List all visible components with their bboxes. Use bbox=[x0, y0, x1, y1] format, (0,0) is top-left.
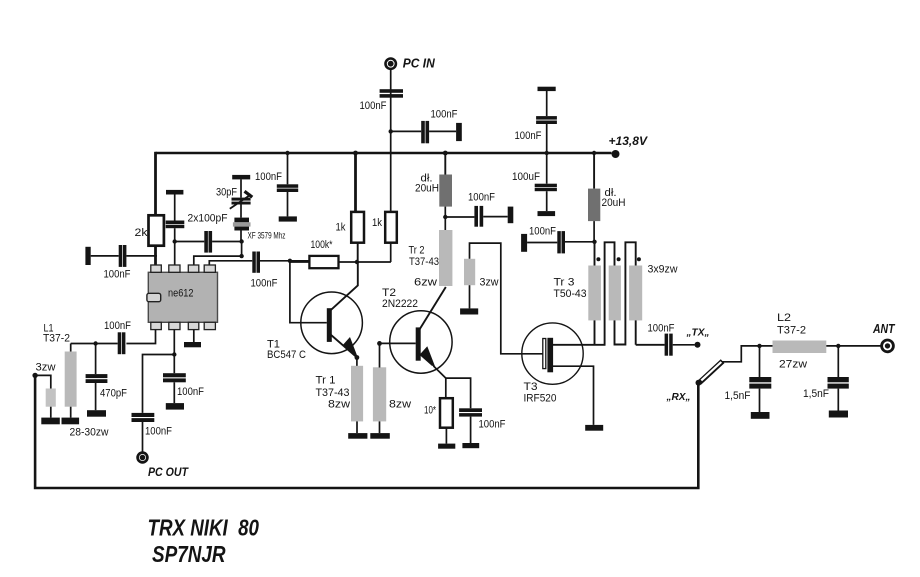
svg-text:L2: L2 bbox=[777, 312, 791, 324]
capacitor 100nF left of Tr3 bbox=[557, 231, 561, 253]
svg-text:T50-43: T50-43 bbox=[554, 288, 587, 300]
capacitor 100nF on pin4 wire bbox=[252, 252, 256, 273]
terminal PC OUT bbox=[138, 453, 148, 463]
node junction pin2 bottom bbox=[172, 352, 176, 356]
wire Tr3 winding1 vertical bbox=[594, 242, 596, 345]
ground end bar bbox=[456, 123, 462, 141]
capacitor 1,5nF #2 bbox=[828, 377, 849, 382]
transistor T1 base bar bbox=[327, 308, 332, 342]
node junction crystal bottom bbox=[239, 239, 243, 243]
wire cap to ground bbox=[470, 417, 472, 443]
wire trimmer to crystal bbox=[240, 205, 242, 218]
wire lever to L2 node bbox=[722, 346, 773, 362]
node junction pin2 bbox=[173, 239, 177, 243]
svg-text:1,5nF: 1,5nF bbox=[803, 388, 829, 400]
wire cap to ground bbox=[759, 389, 761, 412]
wire emitter to winding bbox=[356, 358, 358, 367]
transformer Tr3 winding 2 bbox=[609, 266, 621, 321]
wire choke2 to junction bbox=[593, 221, 595, 242]
wire cap to ground bbox=[837, 389, 839, 411]
wire junction right to 100nF bbox=[445, 216, 474, 218]
wire pin1 bottom to L1 node bbox=[126, 330, 155, 344]
wire 100nF to 100k* bbox=[260, 260, 309, 262]
svg-text:100nF: 100nF bbox=[515, 130, 542, 142]
node junction bus at x546 bbox=[545, 151, 549, 155]
wire cap to ground bbox=[173, 382, 175, 403]
svg-text:T3: T3 bbox=[524, 381, 538, 393]
svg-text:Tr 1: Tr 1 bbox=[316, 375, 336, 387]
svg-text:100k*: 100k* bbox=[311, 239, 334, 251]
node junction T1 collector bbox=[355, 260, 359, 264]
inductor choke dl.20uH #2 bbox=[588, 189, 600, 222]
wire pin2 bottom down bbox=[173, 330, 175, 374]
terminal PC IN bbox=[386, 59, 396, 69]
wire T3 source bbox=[553, 366, 594, 425]
wire bar to cap bbox=[546, 91, 548, 116]
capacitor 470pF bbox=[86, 374, 108, 378]
wire winding2 to ground bbox=[379, 421, 381, 433]
svg-text:100nF: 100nF bbox=[255, 171, 282, 183]
svg-text:T37-43: T37-43 bbox=[409, 256, 439, 268]
wire terminal to 3zw winding bbox=[35, 375, 51, 388]
svg-text:100nF: 100nF bbox=[431, 109, 458, 121]
wire 3zw to ground bbox=[50, 407, 52, 418]
trimmer arrow bbox=[230, 194, 251, 208]
node junction below choke1 bbox=[443, 215, 447, 219]
svg-text:100uF: 100uF bbox=[512, 171, 540, 183]
wire T3 drain to Tr3 bbox=[553, 344, 606, 346]
capacitor 100nF bypass at x287 bbox=[277, 184, 298, 188]
resistor 1k#2 bbox=[385, 212, 397, 243]
capacitor 1,5nF #1 bbox=[749, 377, 771, 382]
ground end bar above 30pF bbox=[232, 175, 250, 180]
svg-text:Tr 2: Tr 2 bbox=[409, 245, 425, 257]
svg-text:100nF: 100nF bbox=[177, 386, 204, 398]
ground end bar bbox=[521, 234, 527, 252]
transformer Tr1 winding 8zw left bbox=[351, 366, 363, 422]
wire 2k to ne612 pin1 bbox=[154, 246, 157, 266]
wire bar to cap bbox=[174, 195, 176, 221]
node junction drain supply bbox=[592, 240, 596, 244]
wire bar to trimmer bbox=[240, 179, 242, 197]
transformer Tr3 winding 1 bbox=[588, 266, 601, 321]
wire cap to pin1 wire bbox=[126, 255, 157, 257]
capacitor 100nF above bus bbox=[536, 116, 557, 120]
svg-text:ne612: ne612 bbox=[168, 287, 194, 299]
svg-text:28-30zw: 28-30zw bbox=[70, 427, 109, 439]
wire emitter node to 100nF bbox=[446, 378, 471, 408]
svg-text:100nF: 100nF bbox=[479, 419, 506, 431]
capacitor 100nF emitter bypass bbox=[459, 408, 482, 412]
resistor 10* bbox=[440, 398, 453, 428]
wire bar to cap bbox=[91, 255, 119, 257]
wire bus down to 1k#1 bbox=[354, 153, 357, 212]
terminal antenna-in node bbox=[32, 373, 37, 378]
ground bar bbox=[538, 211, 556, 216]
capacitor 100nF right of PC IN bbox=[421, 121, 425, 143]
transformer Tr2 winding 3zw bbox=[464, 259, 475, 285]
resistor 100k* bbox=[309, 256, 338, 268]
capacitor 100nF left of ne612 bbox=[119, 245, 123, 267]
node junction bus at x594 bbox=[592, 151, 596, 155]
svg-text:1k: 1k bbox=[336, 222, 346, 234]
capacitor 100nF below PC IN bbox=[380, 89, 403, 93]
node junction T2 base bbox=[377, 341, 382, 346]
transistor T2 collector bbox=[420, 287, 446, 330]
wire 3zw top to T3 gate bbox=[470, 243, 544, 354]
transistor T3 circle bbox=[522, 323, 583, 384]
svg-text:BC547 C: BC547 C bbox=[267, 349, 306, 361]
transistor T1 circle bbox=[301, 292, 363, 354]
svg-text:Tr 3: Tr 3 bbox=[554, 277, 575, 289]
transformer Tr3 winding 3 bbox=[629, 266, 642, 321]
crystal XF 3579 Mhz bbox=[234, 218, 249, 223]
ground bar under pin3 bbox=[184, 342, 201, 347]
svg-text:T37-43: T37-43 bbox=[316, 387, 350, 399]
capacitor 100nF under pin2 bbox=[163, 373, 186, 377]
wire junction right through cap bbox=[175, 241, 205, 243]
ground bar bbox=[166, 403, 184, 410]
capacitor 2x100pF (a) bbox=[166, 221, 185, 225]
svg-text:100nF: 100nF bbox=[468, 192, 495, 204]
wire 1k#1 to node bbox=[357, 243, 359, 262]
svg-text:PC OUT: PC OUT bbox=[148, 465, 189, 479]
svg-text:+13,8V: +13,8V bbox=[609, 134, 648, 148]
wire cap to pin2 junction bbox=[174, 228, 176, 266]
svg-text:IRF520: IRF520 bbox=[524, 393, 557, 405]
inductor 3zw input winding bbox=[46, 389, 56, 407]
svg-text:SP7NJR: SP7NJR bbox=[152, 541, 226, 567]
wire winding2 top to T2 base bbox=[380, 343, 416, 367]
svg-text:XF 3579 Mhz: XF 3579 Mhz bbox=[248, 231, 286, 242]
wire Tr3 series loop bbox=[605, 242, 636, 344]
IC notch marker bbox=[147, 293, 161, 301]
wire cap to TX terminal bbox=[673, 344, 695, 346]
svg-text:TRX NIKI 80: TRX NIKI 80 bbox=[148, 515, 260, 541]
svg-text:30pF: 30pF bbox=[216, 187, 237, 199]
svg-text:470pF: 470pF bbox=[100, 388, 127, 400]
ground bar bbox=[460, 308, 478, 314]
winding polarity dots bbox=[596, 257, 600, 261]
resistor 2k bbox=[149, 215, 164, 245]
svg-text:8zw: 8zw bbox=[389, 399, 411, 411]
svg-text:20uH: 20uH bbox=[602, 197, 626, 209]
capacitor 100nF PC OUT bbox=[132, 413, 155, 417]
ground bar bbox=[438, 444, 455, 449]
wire 10* to ground bbox=[445, 428, 447, 444]
ground end bar bbox=[508, 207, 514, 224]
wire crystal to node bbox=[240, 231, 242, 242]
svg-text:100nF: 100nF bbox=[251, 278, 278, 290]
capacitor 100nF pin1 to L1 bbox=[118, 332, 122, 354]
transformer Tr2 winding 6zw bbox=[439, 230, 452, 286]
svg-text:3zw: 3zw bbox=[36, 362, 56, 374]
transistor T1 collector bbox=[331, 262, 358, 310]
wire to 100nF right of PC IN bbox=[391, 130, 422, 132]
node junction bus at choke1 bbox=[443, 151, 448, 156]
node junction on PC IN line bbox=[389, 129, 393, 133]
ground bar under L1 bbox=[62, 418, 80, 425]
svg-text:100nF: 100nF bbox=[104, 320, 131, 332]
wire cap to bus bbox=[546, 124, 548, 153]
IC pins bottom bbox=[151, 322, 162, 329]
wire junction down to 470pF bbox=[95, 344, 97, 375]
node junction 1,5nF #2 bbox=[836, 344, 840, 348]
transistor T2 base bar bbox=[416, 327, 421, 360]
wire bus to 100uF bbox=[546, 153, 548, 184]
svg-text:100nF: 100nF bbox=[360, 100, 387, 112]
wire bus to choke1 bbox=[444, 153, 446, 175]
ground bar under T3 source bbox=[585, 425, 603, 431]
svg-text:6zw: 6zw bbox=[414, 277, 437, 289]
svg-text:„RX„: „RX„ bbox=[665, 392, 690, 403]
wire pin4 top to 100nF bbox=[209, 261, 252, 266]
wire bus down to choke2 bbox=[593, 153, 595, 189]
wire L2 to ANT bbox=[826, 345, 881, 347]
wire Tr3 output bbox=[636, 344, 665, 346]
svg-text:100nF: 100nF bbox=[648, 323, 675, 335]
capacitor 100uF bbox=[535, 184, 557, 187]
IC ne612 body bbox=[148, 272, 217, 322]
inductor choke dl.20uH #1 bbox=[439, 175, 452, 207]
node junction pin3 wire bbox=[239, 254, 243, 258]
transistor T3 channel bar bbox=[547, 338, 553, 373]
svg-text:27zw: 27zw bbox=[779, 359, 807, 371]
wire winding to ground bbox=[356, 421, 358, 433]
svg-text:8zw: 8zw bbox=[328, 399, 350, 411]
terminal +13,8V bbox=[612, 150, 620, 158]
ground bar bbox=[370, 433, 390, 439]
wire T1 base feed vertical bbox=[290, 261, 327, 323]
wire choke1 down bbox=[444, 207, 446, 230]
svg-text:„TX„: „TX„ bbox=[685, 328, 709, 339]
ground end bar left of 100nF bbox=[85, 247, 90, 265]
wire bias node horizontal bbox=[339, 261, 391, 263]
wire bus down to 100nF bypass bbox=[287, 153, 289, 184]
wire 1k#2 to node bbox=[390, 243, 392, 262]
resistor 1k#1 bbox=[351, 212, 364, 243]
wire pin3 bottom to ground bbox=[193, 330, 195, 342]
wire PC IN down through bus to R 1k#2 bbox=[390, 69, 392, 212]
transistor T2 emitter with arrow bbox=[420, 354, 433, 366]
wire cap to ground bar bbox=[527, 242, 557, 244]
svg-text:3x9zw: 3x9zw bbox=[648, 264, 678, 276]
node junction 1,5nF #1 bbox=[757, 344, 761, 348]
capacitor 2x100pF (b) bbox=[204, 231, 208, 253]
node junction T1 base feed bbox=[288, 259, 292, 263]
wire cap to PC OUT terminal bbox=[142, 422, 144, 452]
wire 100k* left to node bbox=[290, 261, 309, 263]
svg-text:T37-2: T37-2 bbox=[43, 333, 70, 345]
terminal ANT bbox=[882, 340, 894, 352]
inductor L1 winding bbox=[70, 344, 72, 352]
capacitor 100nF collector bypass bbox=[474, 206, 478, 227]
wire crystal node down bbox=[241, 242, 243, 257]
wire 100uF to ground bbox=[546, 191, 548, 211]
ground bar bbox=[462, 443, 479, 448]
ground bar under 3zw bbox=[41, 418, 60, 425]
wire RX return rail bbox=[35, 375, 698, 488]
wire node down to cap bbox=[837, 346, 839, 377]
svg-text:20uH: 20uH bbox=[415, 183, 439, 195]
svg-text:2N2222: 2N2222 bbox=[382, 298, 418, 310]
svg-text:100nF: 100nF bbox=[145, 426, 172, 438]
svg-text:PC IN: PC IN bbox=[403, 56, 436, 71]
ground bar bbox=[829, 411, 848, 418]
ground end bar top of 100nF at x546 bbox=[538, 87, 556, 91]
svg-text:100nF: 100nF bbox=[104, 269, 131, 281]
wire junction to PC OUT branch bbox=[143, 355, 175, 413]
svg-text:T37-2: T37-2 bbox=[777, 325, 806, 337]
wire L1 to ground bbox=[70, 407, 72, 418]
svg-text:100nF: 100nF bbox=[529, 226, 556, 238]
terminal RX bbox=[696, 380, 702, 386]
capacitor 100nF TX output bbox=[665, 334, 669, 356]
switch lever bbox=[699, 361, 722, 383]
transistor T1 emitter with arrow bbox=[331, 335, 356, 357]
ground bar bbox=[87, 410, 106, 417]
IC pins top bbox=[151, 265, 162, 272]
wire cap to ground bbox=[483, 216, 508, 218]
wire main +13.8V bus bbox=[156, 152, 612, 154]
wire T2 emitter to 10* bbox=[445, 378, 447, 398]
svg-text:ANT: ANT bbox=[872, 321, 895, 336]
wire cap to end bar bbox=[429, 130, 456, 132]
svg-text:2k: 2k bbox=[135, 227, 149, 239]
ground bar bbox=[348, 433, 367, 439]
wire pin3 top to crystal node bbox=[194, 256, 242, 266]
node junction bus at 1k#1 bbox=[353, 151, 358, 156]
wire cap to ground bbox=[287, 192, 289, 216]
wire node down to cap bbox=[759, 346, 761, 377]
transistor T2 circle bbox=[390, 311, 452, 373]
transformer Tr1 winding 8zw right bbox=[373, 367, 386, 421]
svg-text:3zw: 3zw bbox=[480, 277, 499, 289]
wire 470pF to ground bbox=[95, 383, 97, 410]
ground bar bbox=[279, 216, 297, 221]
transistor T3 gate bar bbox=[543, 339, 546, 369]
svg-text:2x100pF: 2x100pF bbox=[188, 213, 228, 225]
wire cap to L1 junction bbox=[71, 343, 118, 345]
wire junction left to cap bbox=[565, 241, 595, 243]
wire bus left end down to 2k bbox=[154, 152, 157, 216]
terminal TX bbox=[695, 342, 701, 348]
svg-text:1k: 1k bbox=[372, 217, 382, 229]
svg-text:10*: 10* bbox=[424, 405, 437, 417]
ground end bar top of 2x100pF chain bbox=[166, 190, 183, 195]
node junction T1 emitter bbox=[355, 355, 360, 360]
node junction 470pF bbox=[93, 341, 97, 345]
ground bar bbox=[751, 412, 770, 419]
node junction bus at x287 bbox=[285, 151, 289, 155]
svg-text:1,5nF: 1,5nF bbox=[725, 390, 751, 402]
wire 3zw bottom to ground bbox=[469, 285, 471, 308]
trimmer capacitor 30pF plates bbox=[232, 198, 251, 201]
inductor L2 winding bbox=[773, 341, 827, 354]
wire cap to crystal node bbox=[212, 241, 242, 243]
